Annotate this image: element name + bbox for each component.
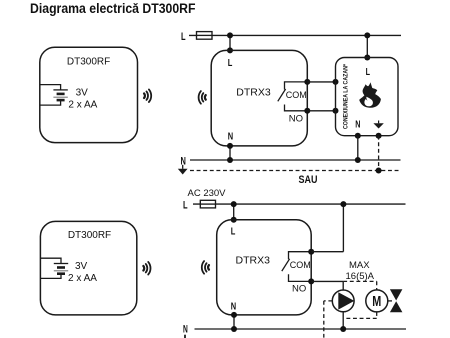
svg-text:2 x AA: 2 x AA bbox=[68, 100, 97, 111]
svg-text:DTRX3: DTRX3 bbox=[236, 255, 271, 267]
svg-text:AC 230V: AC 230V bbox=[188, 188, 227, 199]
svg-text:M: M bbox=[372, 294, 381, 310]
svg-text:DT300RF: DT300RF bbox=[68, 230, 111, 241]
svg-text:2 x AA: 2 x AA bbox=[68, 273, 97, 284]
svg-text:CONEXIUNEA LA CAZAN*: CONEXIUNEA LA CAZAN* bbox=[342, 64, 349, 129]
svg-text:MAX: MAX bbox=[349, 260, 370, 271]
svg-text:NO: NO bbox=[292, 284, 306, 295]
svg-text:DT300RF: DT300RF bbox=[67, 56, 110, 67]
svg-text:3V: 3V bbox=[76, 88, 89, 99]
svg-text:N: N bbox=[355, 119, 360, 130]
svg-text:L: L bbox=[183, 200, 188, 212]
svg-text:L: L bbox=[228, 57, 233, 69]
svg-text:L: L bbox=[366, 67, 370, 78]
svg-text:SAU: SAU bbox=[299, 174, 318, 186]
svg-text:N: N bbox=[231, 301, 236, 313]
svg-text:COM: COM bbox=[290, 260, 311, 270]
svg-text:L: L bbox=[231, 225, 236, 237]
svg-text:L: L bbox=[181, 31, 186, 43]
svg-text:DTRX3: DTRX3 bbox=[236, 86, 271, 98]
svg-text:COM: COM bbox=[286, 90, 307, 100]
svg-text:16(5)A: 16(5)A bbox=[346, 271, 375, 282]
svg-text:3V: 3V bbox=[75, 261, 88, 272]
svg-text:Diagrama electrică DT300RF: Diagrama electrică DT300RF bbox=[30, 1, 196, 16]
svg-text:N: N bbox=[183, 323, 188, 335]
svg-text:N: N bbox=[228, 130, 233, 142]
svg-text:NO: NO bbox=[289, 113, 303, 124]
